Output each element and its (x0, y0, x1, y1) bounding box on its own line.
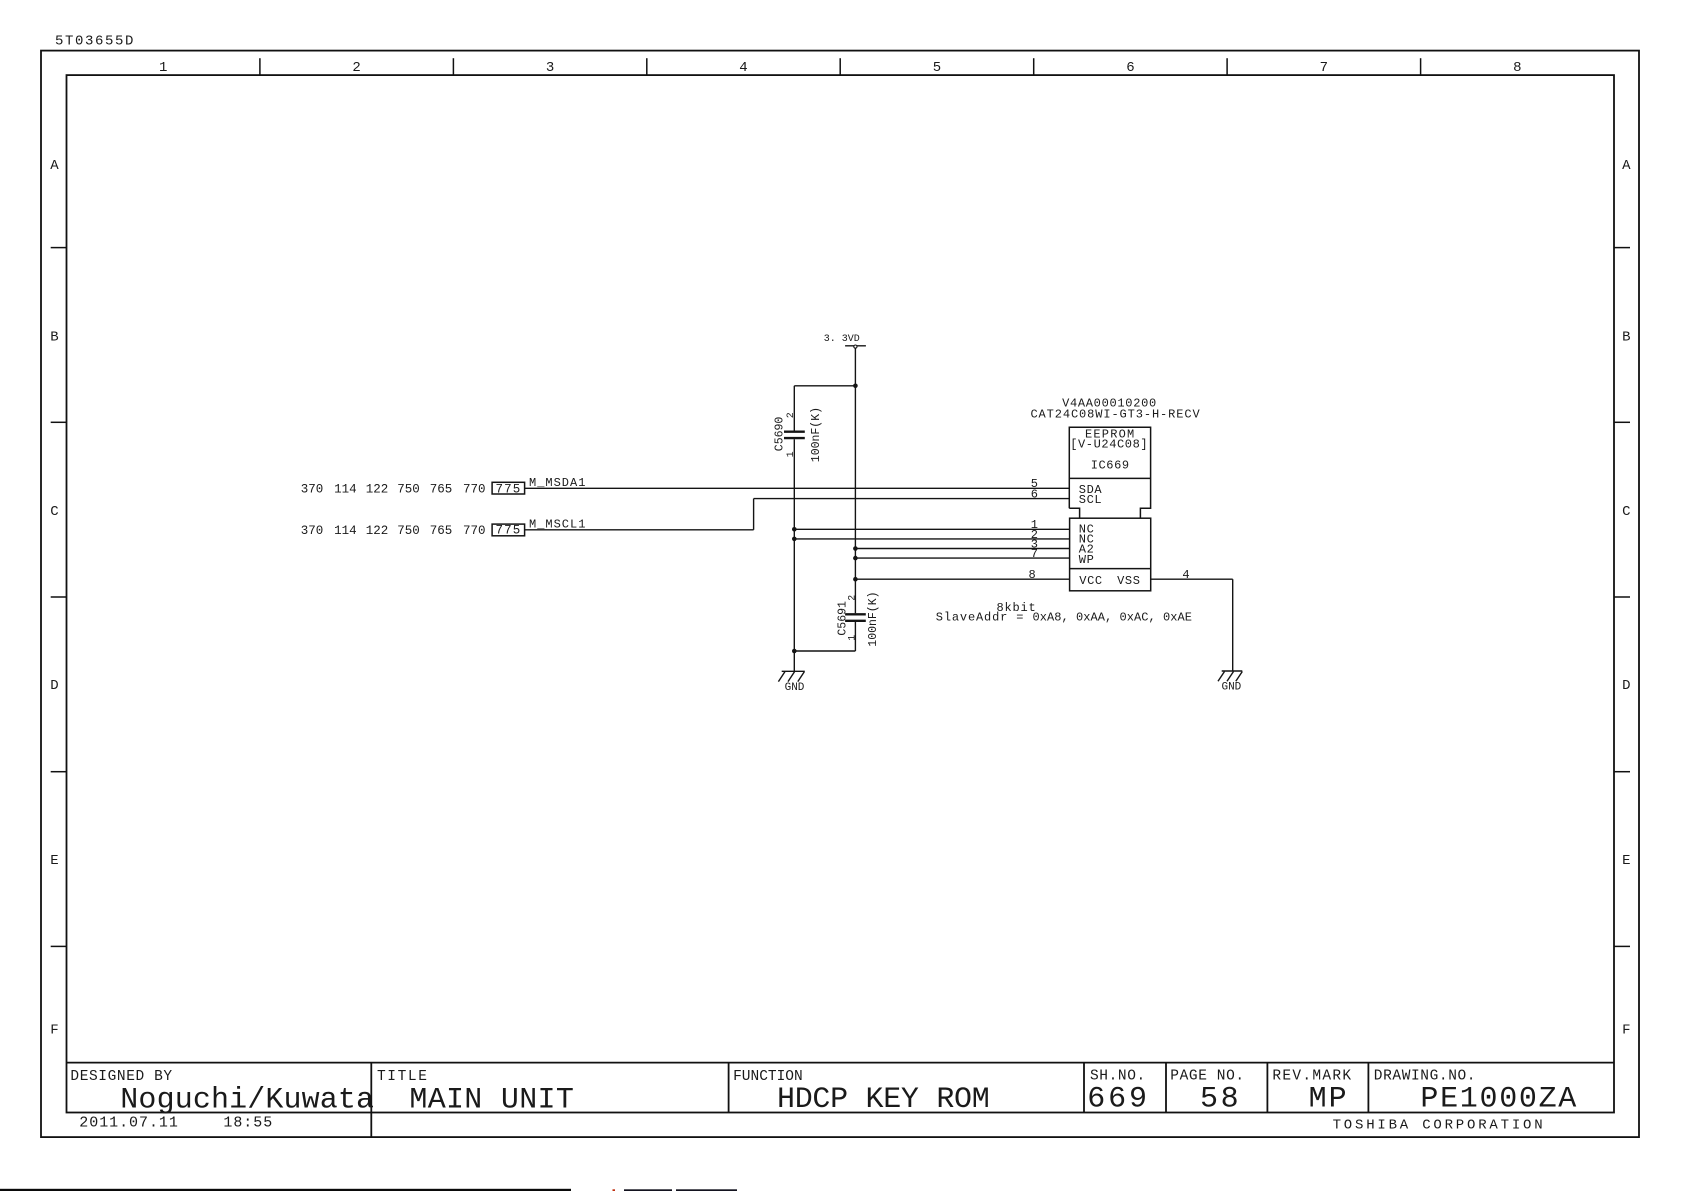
svg-text:3: 3 (546, 60, 554, 76)
svg-text:8: 8 (1513, 60, 1521, 76)
svg-text:4: 4 (1182, 568, 1189, 582)
svg-text:CAT24C08WI-GT3-H-RECV: CAT24C08WI-GT3-H-RECV (1030, 407, 1200, 421)
svg-text:100nF(K): 100nF(K) (810, 407, 823, 462)
svg-text:6: 6 (1031, 488, 1038, 502)
svg-text:669: 669 (1087, 1083, 1150, 1117)
svg-text:MP: MP (1309, 1083, 1349, 1117)
svg-text:D: D (1622, 678, 1630, 694)
svg-text:F: F (50, 1023, 58, 1039)
svg-text:SlaveAddr =: SlaveAddr = (936, 610, 1024, 624)
svg-text:775: 775 (496, 483, 522, 497)
svg-text:D: D (50, 678, 58, 694)
svg-text:765: 765 (430, 483, 453, 497)
svg-text:GND: GND (1221, 681, 1241, 693)
svg-text:2: 2 (847, 595, 858, 601)
svg-text:7: 7 (1031, 547, 1038, 561)
svg-text:7: 7 (1320, 60, 1328, 76)
svg-text:1: 1 (847, 635, 858, 641)
svg-text:1: 1 (159, 60, 167, 76)
svg-text:122: 122 (366, 524, 389, 538)
svg-text:WP: WP (1079, 553, 1095, 567)
svg-text:GND: GND (785, 682, 805, 694)
svg-text:C5690: C5690 (774, 417, 787, 452)
svg-text:370: 370 (301, 524, 324, 538)
svg-text:F: F (1622, 1023, 1630, 1039)
svg-text:770: 770 (463, 483, 486, 497)
svg-text:2011.07.11: 2011.07.11 (79, 1115, 179, 1132)
svg-text:VCC: VCC (1079, 574, 1102, 588)
svg-text:2: 2 (786, 412, 797, 418)
svg-text:B: B (1622, 330, 1630, 346)
svg-text:E: E (1622, 853, 1630, 869)
svg-text:[V-U24C08]: [V-U24C08] (1070, 438, 1148, 452)
svg-text:114: 114 (334, 483, 357, 497)
svg-text:8: 8 (1028, 568, 1035, 582)
svg-text:770: 770 (463, 524, 486, 538)
svg-text:1: 1 (786, 451, 797, 457)
svg-text:IC669: IC669 (1091, 458, 1130, 472)
svg-text:E: E (50, 853, 58, 869)
svg-text:4: 4 (739, 60, 747, 76)
svg-text:HDCP KEY ROM: HDCP KEY ROM (777, 1083, 989, 1117)
svg-text:5T03655D: 5T03655D (55, 34, 135, 50)
svg-text:58: 58 (1200, 1083, 1241, 1117)
svg-text:A: A (1622, 158, 1631, 174)
svg-text:Noguchi/Kuwata: Noguchi/Kuwata (120, 1083, 374, 1117)
svg-text:A: A (50, 158, 59, 174)
svg-text:100nF(K): 100nF(K) (867, 591, 880, 646)
svg-text:VSS: VSS (1117, 574, 1140, 588)
svg-text:750: 750 (397, 524, 420, 538)
svg-text:370: 370 (301, 483, 324, 497)
svg-text:18:55: 18:55 (223, 1115, 273, 1132)
svg-text:B: B (50, 330, 58, 346)
svg-text:2: 2 (352, 60, 360, 76)
svg-text:C: C (1622, 504, 1630, 520)
svg-text:775: 775 (496, 524, 522, 538)
svg-text:C: C (50, 504, 58, 520)
svg-text:SCL: SCL (1079, 493, 1102, 507)
svg-text:5: 5 (933, 60, 941, 76)
svg-text:750: 750 (397, 483, 420, 497)
svg-text:PE1000ZA: PE1000ZA (1420, 1083, 1578, 1117)
svg-text:TOSHIBA CORPORATION: TOSHIBA CORPORATION (1333, 1118, 1546, 1134)
svg-text:6: 6 (1126, 60, 1134, 76)
svg-text:MAIN UNIT: MAIN UNIT (409, 1083, 574, 1117)
svg-text:122: 122 (366, 483, 389, 497)
svg-text:114: 114 (334, 524, 357, 538)
svg-text:3. 3VD: 3. 3VD (824, 334, 860, 345)
svg-text:765: 765 (430, 524, 453, 538)
svg-text:0xA8, 0xAA, 0xAC, 0xAE: 0xA8, 0xAA, 0xAC, 0xAE (1033, 610, 1193, 624)
svg-text:C5691: C5691 (836, 601, 849, 636)
